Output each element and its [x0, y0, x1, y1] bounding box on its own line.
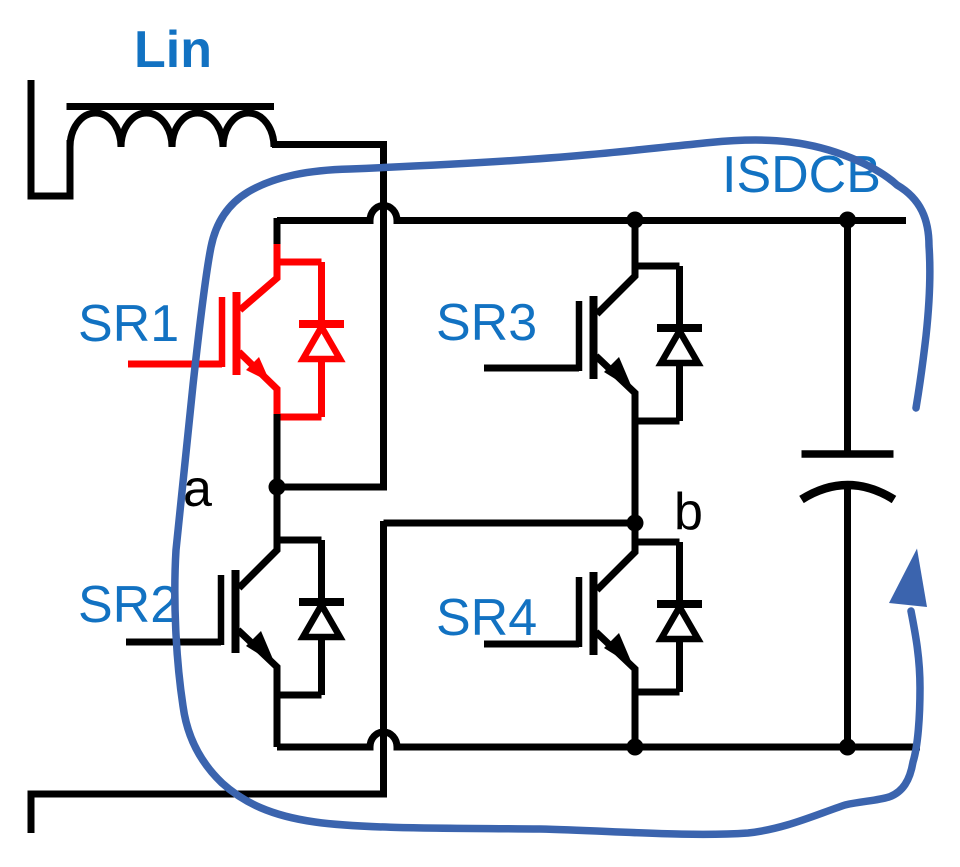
svg-text:SR3: SR3	[436, 294, 537, 352]
svg-text:Lin: Lin	[134, 21, 212, 79]
svg-text:b: b	[674, 483, 703, 541]
svg-text:ISDCB: ISDCB	[722, 146, 881, 204]
svg-text:SR2: SR2	[78, 576, 179, 634]
svg-text:SR4: SR4	[436, 589, 537, 647]
svg-text:SR1: SR1	[78, 295, 179, 353]
